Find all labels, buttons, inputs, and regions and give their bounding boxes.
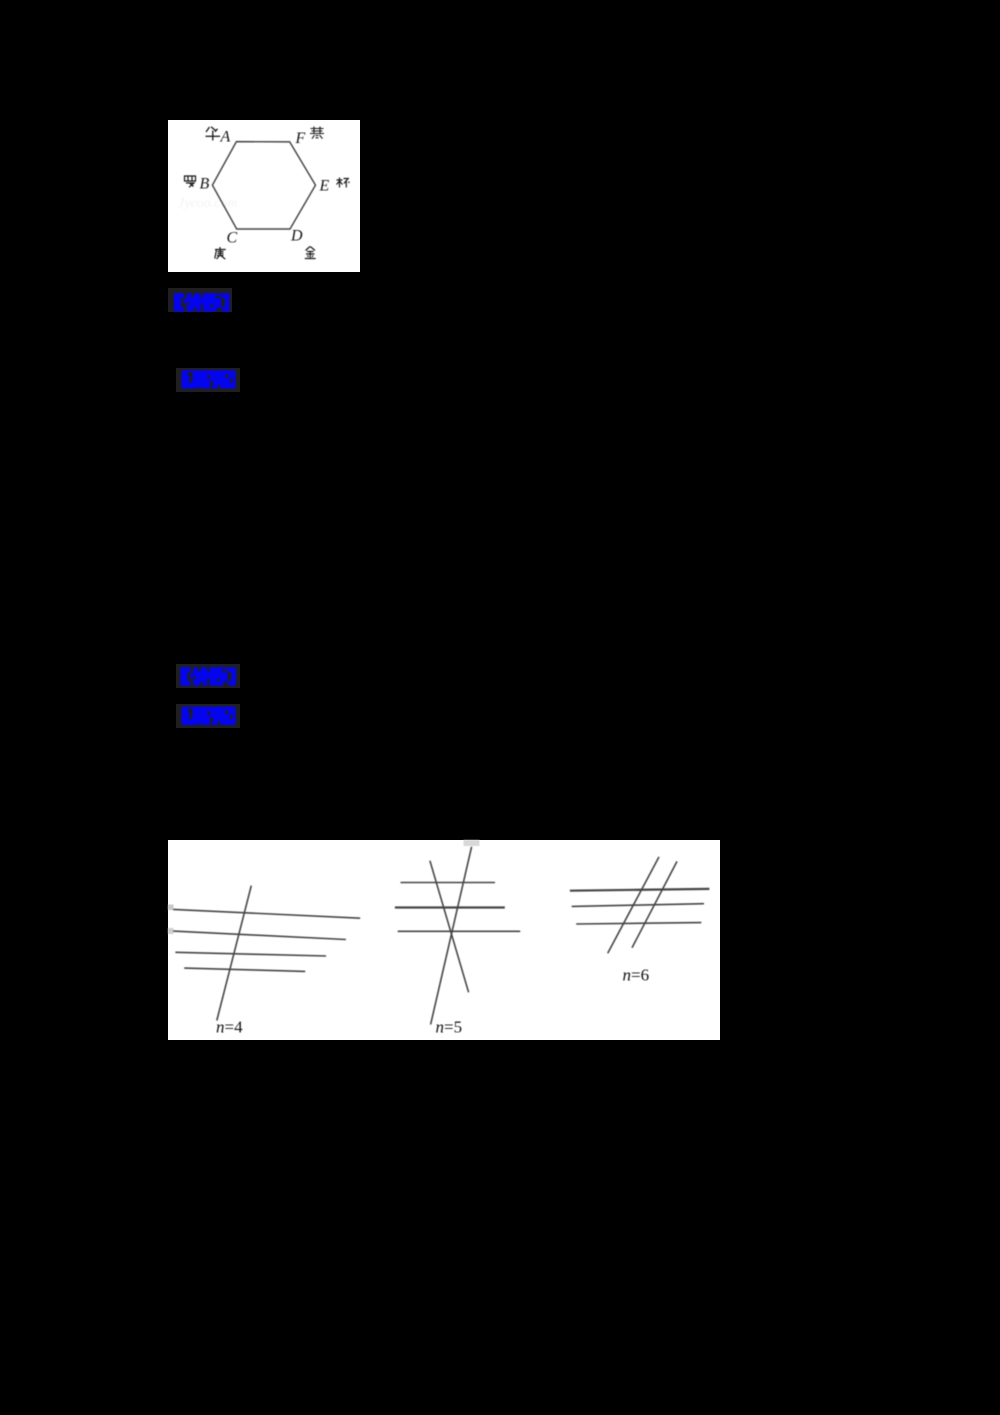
svg-text:D: D — [290, 228, 303, 245]
figure image 2: three line diagrams — [168, 840, 720, 1040]
hanzi 赛 — [310, 127, 324, 139]
svg-text:A: A — [220, 129, 231, 146]
watermark — [178, 196, 237, 211]
hexagon ABCDEF — [212, 142, 315, 229]
svg-text:B: B — [200, 176, 210, 193]
fig n=6 — [570, 857, 710, 953]
hanzi 罗 — [185, 176, 196, 187]
hanzi 杯 — [337, 178, 350, 188]
blue label 1 (analysis) — [168, 288, 232, 312]
svg-text:E: E — [319, 178, 330, 195]
svg-text:n=5: n=5 — [436, 1018, 463, 1037]
hanzi 庚 — [215, 247, 226, 259]
fig n=4 — [173, 886, 360, 1021]
edge artifacts — [168, 905, 174, 911]
svg-text:F: F — [295, 130, 306, 147]
svg-text:C: C — [227, 230, 238, 247]
figure image 1: hexagon — [168, 120, 360, 272]
hanzi 华 — [206, 127, 221, 141]
svg-text:n=4: n=4 — [216, 1018, 243, 1037]
hanzi 金 — [305, 247, 316, 259]
svg-text:n=6: n=6 — [623, 966, 650, 985]
blue label 2 (answer) — [176, 368, 240, 392]
blue label 3 (analysis) — [176, 664, 240, 688]
vertex letters — [200, 129, 330, 247]
svg-text:Jyeoo.com: Jyeoo.com — [178, 196, 237, 211]
fig n=5 — [395, 847, 520, 1025]
blue label 4 (answer) — [176, 704, 240, 728]
